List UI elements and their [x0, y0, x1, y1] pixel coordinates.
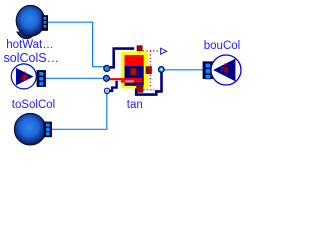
- svg-text:m: m: [221, 64, 228, 75]
- hotWat port square 2: [43, 21, 47, 25]
- boundary sphere toSolCol: [14, 113, 46, 145]
- port_b white triangle: [160, 68, 163, 71]
- svg-text:tan: tan: [127, 99, 143, 111]
- dotted heat line vertical: [149, 51, 151, 88]
- hotWat port square 1: [43, 17, 47, 21]
- Ql_flow output triangle: [161, 48, 167, 54]
- bouCol m-dot symbol: [221, 64, 228, 75]
- tank heaPorVol square: [130, 68, 137, 75]
- svg-text:bouCol: bouCol: [204, 40, 240, 52]
- hotWat ports block: [42, 16, 48, 31]
- toSolCol boundary ports block: [44, 122, 51, 137]
- tank cold volume (navy): [125, 66, 144, 86]
- boundary port square 2: [46, 128, 50, 132]
- tank port_a connector circle: [104, 65, 110, 71]
- tank hot volume (red): [125, 55, 144, 66]
- wire from tank port_b to bouCol: [164, 69, 203, 71]
- toSolCol port square 3: [39, 82, 44, 86]
- svg-text:toSolCol: toSolCol: [12, 99, 55, 111]
- wire from hotWat boundary to tank port_a: [48, 22, 104, 66]
- dotted heat line top: [143, 50, 160, 52]
- wire from toSolCol boundary to tank portHex_b: [52, 94, 107, 130]
- toSolCol ports block: [37, 71, 46, 87]
- bouCol circle: [211, 55, 241, 85]
- svg-text:hotWat…: hotWat…: [6, 39, 54, 51]
- portHex_b center dot: [106, 90, 108, 92]
- heat port bottom square: [137, 86, 143, 92]
- hotWat port square 3: [43, 25, 47, 29]
- boundary sphere hotWat: [16, 5, 45, 36]
- pump toSolCol triangle: [16, 68, 33, 85]
- HX pink bar inside tank: [125, 80, 134, 82]
- tank top pipe (port_a): [110, 49, 134, 68]
- tank portHex_b connector circle (open): [104, 88, 109, 93]
- bouCol port square 1: [205, 63, 210, 67]
- HX supply red bar: [109, 78, 143, 80]
- bouCol triangle: [214, 59, 236, 81]
- toSolCol port square 1: [39, 72, 44, 76]
- boundary port square 3: [46, 132, 50, 136]
- HX lower red strip inside tank: [121, 80, 143, 82]
- dotted heat line bottom: [143, 89, 154, 91]
- svg-text:m: m: [21, 71, 28, 82]
- tank portHex_a connector circle: [103, 75, 109, 81]
- svg-text:solColS…: solColS…: [4, 51, 60, 65]
- boundary sphere solColS (offset behind, bottom arc visible): [15, 8, 37, 39]
- heat port side square: [146, 67, 152, 74]
- heat port top square: [137, 46, 142, 51]
- boundary port square 1: [46, 123, 50, 127]
- pump toSolCol circle: [11, 64, 36, 89]
- toSolCol port square 2: [39, 77, 44, 81]
- tank port_b connector circle right: [158, 67, 164, 73]
- bouCol ports block: [203, 62, 213, 79]
- tank bottom pipe (port_b to right port): [136, 71, 161, 95]
- HX return zigzag pipe: [109, 81, 117, 91]
- wire from toSolCol pump to tank portHex_a: [46, 77, 104, 79]
- tank yellow insulation body: [121, 52, 148, 88]
- bouCol port square 2: [205, 69, 210, 74]
- pump toSolCol m-dot symbol: [21, 71, 28, 82]
- bouCol port square 3: [205, 74, 210, 79]
